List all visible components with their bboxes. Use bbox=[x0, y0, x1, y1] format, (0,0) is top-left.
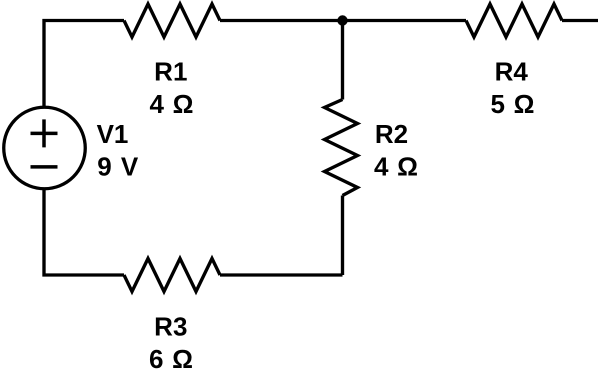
svg-text:R1: R1 bbox=[154, 57, 187, 87]
node A junction dot bbox=[337, 15, 347, 25]
svg-text:4 Ω: 4 Ω bbox=[374, 151, 418, 181]
wire from R1 right lead to node A bbox=[220, 19, 343, 22]
resistor R1 bbox=[124, 4, 220, 37]
resistor R4 bbox=[466, 4, 562, 37]
wire from R2 bottom lead to bottom-right corner bbox=[341, 196, 344, 276]
resistor R2 bbox=[325, 100, 358, 196]
svg-text:V1: V1 bbox=[97, 119, 129, 149]
wire from R3 left lead to bottom-left corner up to V1 bottom bbox=[44, 189, 124, 276]
voltage source V1 bbox=[4, 107, 86, 189]
svg-text:R2: R2 bbox=[375, 119, 408, 149]
wire from V1 top to top-left corner to R1 left lead bbox=[44, 21, 124, 108]
V1 circle body bbox=[4, 107, 86, 189]
wire from R4 right lead to open end bbox=[562, 19, 598, 22]
wire from node A to R4 left lead bbox=[343, 19, 467, 22]
svg-text:R4: R4 bbox=[495, 57, 529, 87]
svg-text:R3: R3 bbox=[154, 312, 187, 342]
wire bottom-right corner to R3 right lead bbox=[220, 273, 343, 276]
wire from node A down to R2 top lead bbox=[341, 21, 344, 100]
V1 plus terminal mark bbox=[31, 119, 58, 147]
V1 minus terminal mark bbox=[31, 165, 58, 169]
resistor R3 bbox=[124, 259, 220, 292]
svg-text:6 Ω: 6 Ω bbox=[149, 344, 193, 370]
svg-text:4 Ω: 4 Ω bbox=[150, 89, 194, 119]
svg-text:9 V: 9 V bbox=[97, 152, 139, 182]
svg-text:5 Ω: 5 Ω bbox=[491, 89, 535, 119]
